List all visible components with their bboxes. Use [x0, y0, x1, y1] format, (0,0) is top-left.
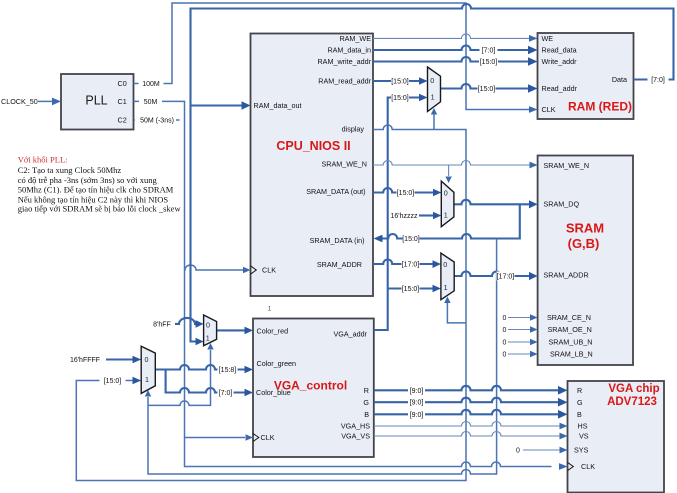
svg-text:0: 0 — [444, 189, 448, 198]
svg-text:1: 1 — [444, 211, 448, 220]
svg-text:[17:0]: [17:0] — [497, 274, 515, 281]
svg-text:SRAM_DATA (out): SRAM_DATA (out) — [306, 187, 365, 196]
svg-text:Với khối PLL:: Với khối PLL: — [18, 155, 68, 165]
svg-text:RAM_write_addr: RAM_write_addr — [317, 57, 371, 66]
svg-text:[15:0]: [15:0] — [478, 86, 496, 93]
svg-text:1: 1 — [145, 375, 149, 384]
svg-text:50Mhz (C1). Để tạo tín hiệu cl: 50Mhz (C1). Để tạo tín hiệu clk cho SDRA… — [18, 185, 174, 195]
svg-text:0: 0 — [206, 321, 210, 330]
svg-text:có độ trễ pha -3ns (sớm 3ns) s: có độ trễ pha -3ns (sớm 3ns) so với xung — [18, 175, 158, 185]
svg-text:RAM (RED): RAM (RED) — [568, 100, 632, 114]
svg-text:[7:0]: [7:0] — [482, 48, 496, 55]
svg-text:CLK: CLK — [581, 462, 595, 471]
svg-text:[15:0]: [15:0] — [104, 378, 122, 385]
svg-text:RAM_data_in: RAM_data_in — [327, 46, 371, 55]
svg-text:display: display — [342, 125, 365, 134]
svg-text:C0: C0 — [118, 79, 127, 88]
svg-text:(G,B): (G,B) — [568, 236, 600, 251]
svg-text:CLK: CLK — [262, 266, 276, 275]
svg-text:1: 1 — [444, 283, 448, 292]
svg-text:0: 0 — [516, 448, 520, 455]
svg-text:50M: 50M — [144, 99, 158, 106]
svg-text:C2: C2 — [118, 116, 127, 125]
svg-text:SRAM_CE_N: SRAM_CE_N — [547, 313, 591, 322]
svg-text:CLK: CLK — [542, 105, 556, 114]
svg-text:0: 0 — [145, 355, 149, 364]
svg-text:[9:0]: [9:0] — [410, 412, 424, 419]
svg-text:0: 0 — [430, 76, 434, 85]
svg-text:RAM_WE: RAM_WE — [339, 34, 371, 43]
svg-text:SRAM_LB_N: SRAM_LB_N — [550, 350, 593, 359]
svg-text:16'hzzzz: 16'hzzzz — [390, 213, 418, 220]
svg-text:R: R — [364, 386, 369, 395]
svg-text:Data: Data — [612, 75, 627, 84]
svg-text:Color_green: Color_green — [257, 359, 297, 368]
svg-text:1: 1 — [268, 306, 272, 313]
svg-text:0: 0 — [503, 352, 507, 359]
svg-text:[9:0]: [9:0] — [410, 388, 424, 395]
svg-text:Read_addr: Read_addr — [542, 84, 578, 93]
svg-text:0: 0 — [503, 327, 507, 334]
svg-text:ADV7123: ADV7123 — [607, 396, 657, 408]
svg-text:B: B — [364, 410, 369, 419]
svg-text:[15:0]: [15:0] — [402, 236, 420, 243]
svg-text:50M (-3ns): 50M (-3ns) — [140, 118, 174, 125]
svg-text:C2: Tạo ta xung Clock 50Mhz: C2: Tạo ta xung Clock 50Mhz — [18, 165, 122, 175]
svg-text:SRAM: SRAM — [566, 221, 604, 236]
svg-text:VGA chip: VGA chip — [608, 383, 659, 395]
svg-text:Color_red: Color_red — [257, 327, 289, 336]
svg-text:[15:0]: [15:0] — [402, 286, 420, 293]
svg-text:VGA_HS: VGA_HS — [341, 422, 370, 431]
svg-text:16'hFFFF: 16'hFFFF — [70, 357, 100, 364]
svg-text:Write_addr: Write_addr — [542, 57, 578, 66]
svg-text:SRAM_WE_N: SRAM_WE_N — [321, 160, 367, 169]
svg-text:0: 0 — [443, 260, 447, 269]
svg-text:giao tiếp với SDRAM sẽ bị báo: giao tiếp với SDRAM sẽ bị báo lỗi clock … — [18, 203, 182, 213]
svg-text:G: G — [363, 398, 369, 407]
svg-text:RAM_read_addr: RAM_read_addr — [318, 77, 371, 86]
svg-text:1: 1 — [206, 334, 210, 343]
svg-text:[15:8]: [15:8] — [219, 367, 237, 374]
svg-text:SRAM_DATA (in): SRAM_DATA (in) — [310, 236, 365, 245]
svg-text:0: 0 — [503, 340, 507, 347]
svg-text:VGA_control: VGA_control — [274, 379, 347, 393]
svg-text:SRAM_WE_N: SRAM_WE_N — [544, 161, 590, 170]
svg-text:SRAM_DQ: SRAM_DQ — [544, 200, 580, 209]
svg-text:[7:0]: [7:0] — [651, 77, 665, 84]
svg-text:[15:0]: [15:0] — [391, 79, 409, 86]
svg-text:VGA_addr: VGA_addr — [333, 330, 367, 339]
svg-text:C1: C1 — [118, 97, 127, 106]
svg-text:HS: HS — [578, 422, 588, 431]
svg-text:RAM_data_out: RAM_data_out — [254, 101, 302, 110]
svg-text:SRAM_UB_N: SRAM_UB_N — [549, 338, 593, 347]
svg-text:1: 1 — [431, 93, 435, 102]
svg-text:CLOCK_50: CLOCK_50 — [1, 97, 38, 106]
svg-text:0: 0 — [503, 315, 507, 322]
svg-text:[17:0]: [17:0] — [402, 262, 420, 269]
svg-text:B: B — [577, 410, 582, 419]
svg-text:SRAM_OE_N: SRAM_OE_N — [548, 325, 592, 334]
svg-text:SRAM_ADDR: SRAM_ADDR — [544, 271, 589, 280]
svg-text:Read_data: Read_data — [542, 46, 577, 55]
svg-text:[9:0]: [9:0] — [410, 400, 424, 407]
svg-text:CLK: CLK — [261, 433, 275, 442]
svg-text:PLL: PLL — [85, 93, 107, 107]
svg-text:SRAM_ADDR: SRAM_ADDR — [317, 260, 362, 269]
svg-text:8'hFF: 8'hFF — [153, 321, 171, 328]
svg-text:[15:0]: [15:0] — [480, 59, 498, 66]
svg-text:G: G — [577, 398, 583, 407]
svg-text:VGA_VS: VGA_VS — [341, 432, 370, 441]
svg-text:SYS: SYS — [574, 446, 589, 455]
svg-text:100M: 100M — [142, 81, 160, 88]
svg-text:CPU_NIOS II: CPU_NIOS II — [276, 139, 350, 153]
svg-text:R: R — [577, 386, 582, 395]
svg-text:WE: WE — [542, 34, 554, 43]
svg-text:[7:0]: [7:0] — [219, 390, 233, 397]
svg-text:[15:0]: [15:0] — [397, 190, 415, 197]
svg-text:VS: VS — [579, 432, 589, 441]
svg-text:[15:0]: [15:0] — [391, 95, 409, 102]
